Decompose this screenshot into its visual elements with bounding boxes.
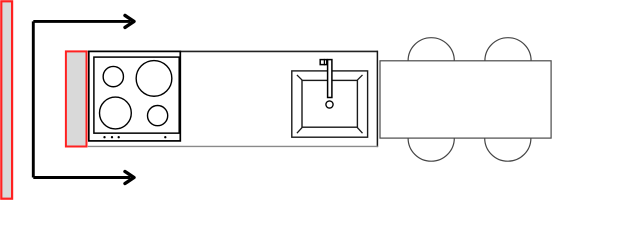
counter right edge (376, 51, 378, 147)
chair bottom-left (408, 115, 454, 161)
table (380, 61, 551, 138)
control dot 4 (164, 136, 166, 138)
dimension arrow top head (125, 15, 134, 27)
dimension arrow bottom head (125, 172, 134, 184)
sink bevel bottom-left (297, 127, 302, 133)
burner bottom-left (100, 97, 132, 129)
sink bevel bottom-right (357, 127, 362, 133)
cooktop outer frame (89, 51, 181, 140)
control dot 3 (118, 136, 120, 138)
sink basin (302, 80, 357, 127)
chair top-left (408, 38, 454, 84)
control dot 2 (111, 136, 113, 138)
cooktop inner panel (94, 57, 179, 133)
control dot 1 (103, 136, 105, 138)
dimension arrow top shaft (33, 20, 130, 23)
tap hole (326, 101, 333, 108)
counter top edge (88, 50, 378, 52)
chair bottom-right (485, 115, 531, 161)
faucet spout bar (328, 60, 332, 98)
chair top-right (485, 38, 531, 84)
wall W2 (short wall segment, selected red) (66, 51, 87, 146)
burner top-left (103, 66, 123, 86)
burner top-right (136, 61, 172, 97)
sink bevel top-left (297, 75, 302, 80)
sink outer rim (292, 71, 368, 137)
faucet handle (320, 60, 327, 65)
faucet handle divider (323, 59, 325, 65)
burner bottom-right (148, 106, 168, 126)
counter bottom edge (88, 145, 378, 147)
dimension arrow vertical wire (32, 21, 35, 177)
wall W1 (left vertical wall, selected red) (1, 1, 12, 198)
sink bevel top-right (357, 75, 362, 80)
dimension arrow bottom shaft (33, 176, 130, 179)
